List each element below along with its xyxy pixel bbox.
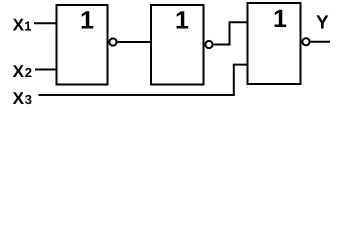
svg-text:1: 1 [175,7,189,35]
node X2 label [13,62,32,81]
wire X1 to U1 pin 1 [34,22,57,24]
gate U2 body [151,5,204,85]
svg-text:1: 1 [80,7,94,35]
wire U2 output to U3 upper input (with jog up) [214,22,248,44]
gate U1 body [57,5,108,85]
svg-text:1: 1 [273,5,287,33]
gate U3 output inversion bubble [302,38,309,45]
gate U3 body [248,3,301,84]
svg-text:1: 1 [24,19,31,34]
gate U1 output inversion bubble [109,38,116,45]
svg-text:Y: Y [316,13,329,34]
svg-text:X: X [13,62,25,81]
wire X2 to U1 pin 2 [35,69,57,71]
wire U1 output to U2 input [118,41,151,43]
node X3 label [13,89,32,108]
node X1 label [13,16,32,35]
svg-text:X: X [13,89,25,108]
svg-text:3: 3 [25,92,32,107]
svg-text:X: X [13,16,25,35]
svg-text:2: 2 [25,65,32,80]
wire X3 to U3 lower input (with jog up) [39,65,248,95]
gate U2 output inversion bubble [205,41,212,48]
wire U3 output to node Y [311,41,330,43]
